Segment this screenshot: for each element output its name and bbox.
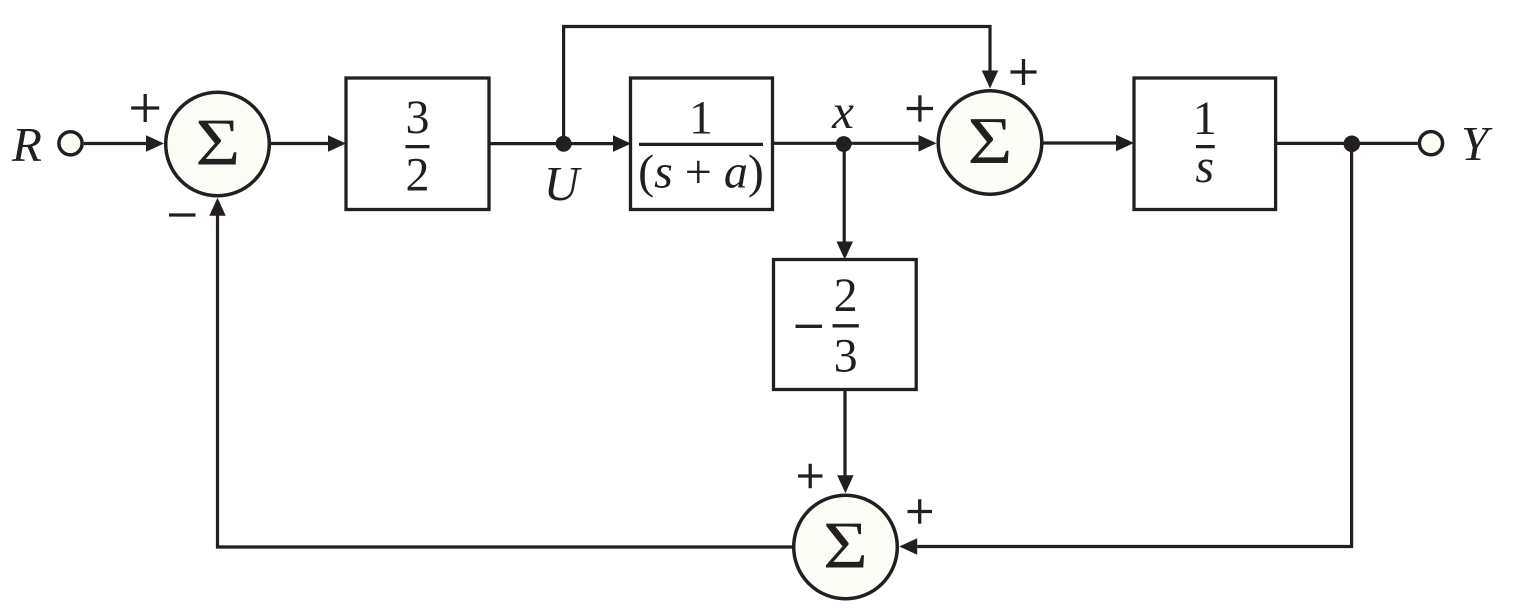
svg-text:Σ: Σ <box>823 508 868 582</box>
plus sign at S2 top input <box>1011 59 1037 85</box>
block 1/(s+a) <box>631 78 773 210</box>
plus sign at S3 right input <box>908 499 933 523</box>
wire 1/(s+a) to summer S2 with arrowhead <box>773 135 937 152</box>
plus sign at S1 input <box>131 94 159 122</box>
wire x down to block -2/3 with arrowhead <box>837 144 854 260</box>
summing junction S1 <box>166 92 270 196</box>
svg-text:2: 2 <box>406 149 430 202</box>
node Y output terminal <box>1419 132 1442 155</box>
svg-text:3: 3 <box>406 91 430 144</box>
svg-text:x: x <box>831 84 854 139</box>
svg-text:Σ: Σ <box>968 104 1013 178</box>
wire 1/s to output terminal Y <box>1276 142 1418 145</box>
wire S1 to block 3/2 with arrowhead <box>271 135 346 152</box>
svg-text:(s + a): (s + a) <box>638 146 764 199</box>
svg-text:Y: Y <box>1461 116 1493 171</box>
wire -2/3 down to summer S3 with arrowhead <box>837 390 853 494</box>
node x junction dot <box>836 136 852 152</box>
summing junction S2 <box>938 91 1042 195</box>
block gain 3/2 <box>346 78 489 210</box>
svg-text:R: R <box>11 117 42 172</box>
label Y <box>1461 116 1493 171</box>
block -2/3 <box>774 260 917 390</box>
wire S2 to block 1/s with arrowhead <box>1044 135 1135 152</box>
label R <box>11 117 42 172</box>
plus sign at S2 left input <box>907 95 933 121</box>
wire R to summer S1 with arrowhead <box>84 135 164 152</box>
svg-text:2: 2 <box>834 269 858 322</box>
svg-text:1: 1 <box>689 92 713 145</box>
plus sign at S3 top input <box>798 464 823 488</box>
svg-text:U: U <box>544 156 583 211</box>
svg-text:Σ: Σ <box>195 105 240 179</box>
svg-text:3: 3 <box>834 329 858 382</box>
svg-text:1: 1 <box>1193 92 1217 145</box>
node R input terminal <box>59 132 82 155</box>
label U <box>544 156 583 211</box>
label x <box>831 84 854 139</box>
svg-text:s: s <box>1195 140 1214 193</box>
summing junction S3 <box>794 495 898 599</box>
node Y junction dot <box>1344 136 1361 153</box>
minus sign at S1 feedback input <box>169 213 196 216</box>
wire feedforward U up and over to summer S2 with arrowhead <box>564 27 999 144</box>
wire S3 left and up to S1 with arrowhead <box>209 198 794 547</box>
block 1/s <box>1134 78 1276 210</box>
node U junction dot <box>556 136 572 152</box>
wire Y node down and left to S3 with arrowhead <box>899 144 1351 555</box>
wire 3/2 to block 1/(s+a) with arrowhead <box>489 135 631 152</box>
